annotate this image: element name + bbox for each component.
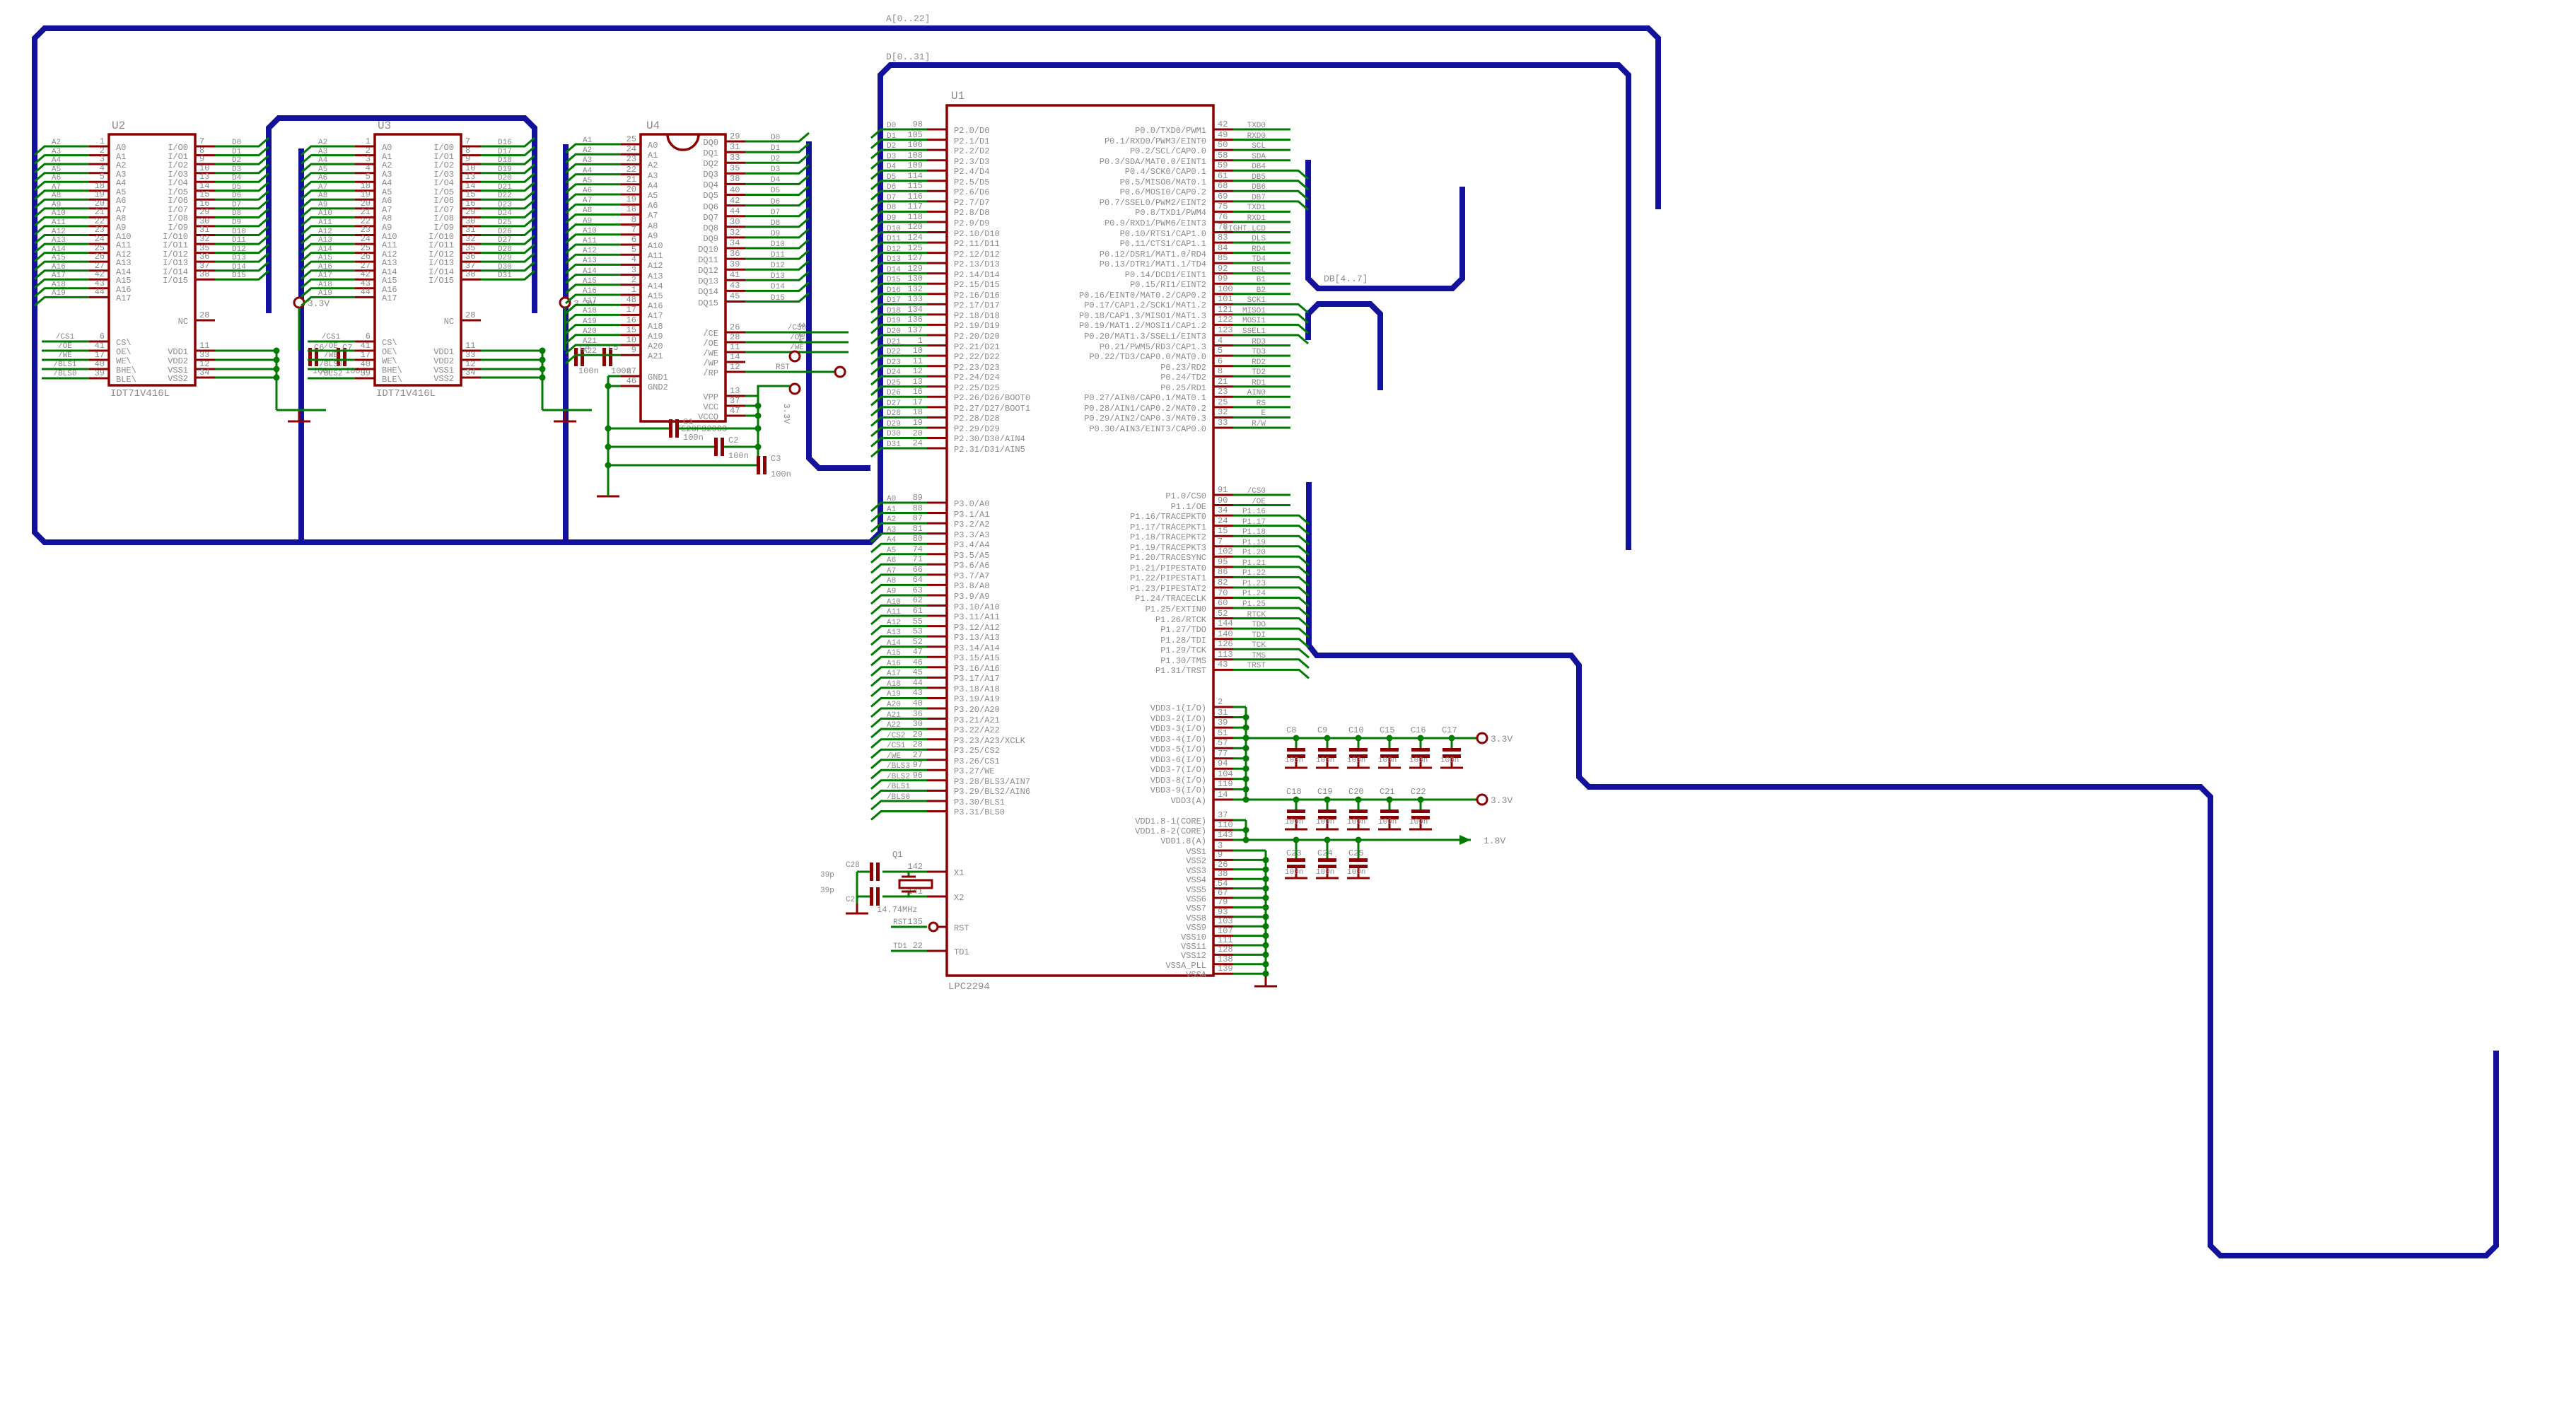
svg-text:5: 5 (1218, 346, 1223, 356)
svg-text:A15: A15 (887, 649, 901, 658)
svg-text:86: 86 (1218, 567, 1228, 577)
svg-text:D21: D21 (498, 183, 512, 192)
svg-text:D15: D15 (887, 276, 901, 284)
svg-text:RST: RST (954, 923, 969, 933)
svg-text:WE\: WE\ (382, 356, 397, 366)
svg-text:A10: A10 (318, 209, 332, 218)
svg-text:P0.11/CTS1/CAP1.1: P0.11/CTS1/CAP1.1 (1120, 239, 1206, 249)
svg-text:A9: A9 (52, 201, 61, 209)
svg-text:TMS: TMS (1252, 652, 1266, 660)
svg-text:A13: A13 (887, 629, 901, 637)
U4 power wires and caps C1 C2 C3 (597, 322, 845, 496)
svg-text:A9: A9 (648, 231, 658, 241)
svg-text:41: 41 (730, 270, 740, 280)
svg-text:C3: C3 (771, 454, 781, 464)
svg-text:D11: D11 (887, 235, 901, 243)
svg-text:D9: D9 (232, 218, 241, 227)
svg-text:28: 28 (913, 740, 923, 749)
svg-text:VSSA: VSSA (1186, 970, 1207, 980)
svg-text:A14: A14 (648, 281, 663, 291)
svg-text:54: 54 (1218, 879, 1228, 889)
svg-text:43: 43 (913, 688, 923, 698)
svg-text:24: 24 (361, 234, 371, 244)
svg-text:A5: A5 (887, 547, 896, 555)
svg-text:71: 71 (913, 554, 923, 564)
svg-text:D14: D14 (771, 283, 785, 291)
svg-text:P3.31/BLS0: P3.31/BLS0 (954, 807, 1005, 817)
svg-text:A6: A6 (583, 187, 592, 195)
svg-text:120: 120 (907, 222, 923, 232)
svg-text:A18: A18 (318, 281, 332, 289)
svg-text:90: 90 (1218, 496, 1228, 505)
svg-text:OE\: OE\ (382, 347, 397, 357)
svg-text:100n: 100n (1316, 756, 1334, 765)
svg-text:26: 26 (1218, 860, 1228, 870)
svg-text:74: 74 (913, 544, 923, 554)
svg-text:34: 34 (1218, 505, 1228, 515)
bus D[0..31] label (886, 52, 930, 62)
svg-text:A5: A5 (648, 191, 658, 201)
svg-text:A11: A11 (116, 240, 132, 250)
svg-text:22: 22 (913, 941, 923, 951)
svg-text:P3.26/CS1: P3.26/CS1 (954, 756, 1000, 766)
svg-text:D13: D13 (771, 272, 785, 281)
svg-text:D[0..31]: D[0..31] (886, 52, 930, 62)
svg-text:61: 61 (1218, 171, 1228, 181)
svg-text:/CE: /CE (703, 329, 718, 339)
svg-text:A4: A4 (887, 536, 897, 544)
svg-text:39: 39 (95, 368, 105, 378)
svg-text:1: 1 (631, 285, 636, 295)
svg-text:TD1: TD1 (893, 942, 907, 951)
svg-text:134: 134 (907, 305, 923, 315)
svg-text:40: 40 (913, 699, 923, 708)
svg-text:CS\: CS\ (382, 338, 397, 348)
svg-text:D9: D9 (771, 230, 780, 238)
svg-text:BHE\: BHE\ (382, 366, 402, 375)
U1 VDD1.8 pins (1135, 810, 1505, 846)
svg-text:A10: A10 (648, 241, 663, 251)
svg-text:I/O8: I/O8 (433, 214, 454, 223)
svg-text:P3.16/A16: P3.16/A16 (954, 664, 1000, 674)
svg-text:P2.15/D15: P2.15/D15 (954, 280, 1000, 290)
svg-text:43: 43 (1218, 660, 1228, 670)
svg-text:A15: A15 (318, 254, 332, 262)
svg-text:100n: 100n (1378, 756, 1397, 765)
svg-text:13: 13 (465, 172, 475, 182)
svg-text:D12: D12 (887, 245, 901, 254)
svg-text:34: 34 (199, 368, 209, 378)
svg-text:135: 135 (907, 917, 923, 927)
svg-text:D2: D2 (771, 155, 780, 163)
svg-text:D7: D7 (771, 209, 780, 217)
svg-text:125: 125 (907, 243, 923, 253)
svg-text:VDD1.8(A): VDD1.8(A) (1160, 836, 1206, 846)
svg-text:21: 21 (1218, 377, 1228, 387)
svg-text:DQ8: DQ8 (703, 223, 718, 233)
svg-text:P2.7/D7: P2.7/D7 (954, 198, 989, 208)
svg-text:P0.1/RXD0/PWM3/EINT0: P0.1/RXD0/PWM3/EINT0 (1105, 136, 1206, 146)
svg-text:/OE: /OE (58, 342, 72, 351)
svg-text:P0.3/SDA/MAT0.0/EINT1: P0.3/SDA/MAT0.0/EINT1 (1100, 157, 1206, 167)
svg-text:/OE: /OE (1252, 498, 1266, 506)
svg-text:27: 27 (913, 750, 923, 760)
svg-text:118: 118 (907, 212, 923, 222)
svg-text:P3.23/A23/XCLK: P3.23/A23/XCLK (954, 736, 1026, 746)
svg-text:P1.18: P1.18 (1242, 528, 1266, 537)
svg-text:9: 9 (199, 154, 204, 164)
svg-text:A16: A16 (583, 287, 597, 296)
svg-text:/RP: /RP (703, 368, 718, 378)
svg-text:A13: A13 (583, 257, 597, 265)
bus A[0..22] label (886, 13, 930, 24)
svg-text:P2.6/D6: P2.6/D6 (954, 187, 989, 197)
svg-text:P2.12/D12: P2.12/D12 (954, 250, 1000, 259)
svg-text:100n: 100n (1409, 818, 1428, 826)
svg-text:83: 83 (1218, 233, 1228, 242)
svg-text:I/O2: I/O2 (168, 160, 188, 170)
svg-text:100n: 100n (1316, 868, 1334, 877)
svg-text:13: 13 (730, 386, 740, 396)
svg-text:P1.23/PIPESTAT2: P1.23/PIPESTAT2 (1130, 584, 1206, 594)
svg-text:GND1: GND1 (648, 373, 668, 382)
svg-text:/BLS1: /BLS1 (53, 361, 76, 369)
svg-text:SCK1: SCK1 (1247, 296, 1266, 305)
svg-text:I/O8: I/O8 (168, 214, 188, 223)
svg-text:A2: A2 (583, 146, 592, 155)
svg-text:A12: A12 (52, 228, 66, 236)
svg-text:1.8V: 1.8V (1484, 836, 1505, 846)
svg-text:70: 70 (1218, 588, 1228, 598)
U1 VDD3 pins and 3.3V (1150, 697, 1513, 806)
svg-text:A11: A11 (318, 218, 332, 227)
svg-text:36: 36 (730, 249, 740, 259)
svg-text:RD3: RD3 (1252, 338, 1266, 346)
svg-text:/BLS2: /BLS2 (887, 773, 910, 781)
svg-text:A15: A15 (583, 277, 597, 286)
svg-text:121: 121 (1218, 305, 1233, 315)
svg-text:C8: C8 (1286, 725, 1296, 735)
MCU U1 LPC2294 (947, 90, 1213, 993)
svg-text:59: 59 (1218, 160, 1228, 170)
svg-text:P2.13/D13: P2.13/D13 (954, 259, 1000, 269)
svg-text:42: 42 (730, 196, 740, 206)
svg-text:32: 32 (730, 228, 740, 238)
svg-text:P0.8/TXD1/PWM4: P0.8/TXD1/PWM4 (1135, 208, 1206, 218)
U1 VSS pins (1165, 841, 1277, 986)
svg-text:5: 5 (631, 245, 636, 255)
svg-text:D4: D4 (232, 174, 242, 182)
svg-text:28: 28 (465, 310, 475, 320)
svg-text:P2.20/D20: P2.20/D20 (954, 332, 1000, 341)
svg-text:/CS2: /CS2 (887, 732, 905, 740)
svg-text:D19: D19 (498, 165, 512, 174)
svg-text:88: 88 (913, 503, 923, 513)
svg-text:16: 16 (626, 315, 636, 325)
svg-text:U1: U1 (951, 90, 964, 103)
svg-text:28: 28 (730, 332, 740, 342)
svg-text:VDD3-1(I/O): VDD3-1(I/O) (1150, 703, 1206, 713)
svg-text:P0.18/CAP1.3/MISO1/MAT1.3: P0.18/CAP1.3/MISO1/MAT1.3 (1079, 311, 1206, 321)
svg-text:P3.10/A10: P3.10/A10 (954, 602, 1000, 612)
svg-text:15: 15 (199, 189, 209, 199)
svg-text:5: 5 (100, 172, 105, 182)
svg-text:75: 75 (1218, 201, 1228, 211)
svg-text:38: 38 (730, 174, 740, 184)
svg-text:A18: A18 (648, 322, 663, 332)
svg-text:VSS11: VSS11 (1181, 942, 1206, 952)
svg-text:D31: D31 (887, 440, 901, 449)
svg-text:SDA: SDA (1252, 153, 1266, 161)
svg-text:84: 84 (1218, 243, 1228, 253)
svg-text:29: 29 (199, 207, 209, 217)
svg-text:D6: D6 (232, 192, 241, 200)
svg-text:D29: D29 (887, 420, 901, 428)
svg-text:81: 81 (913, 524, 923, 534)
svg-text:7: 7 (631, 225, 636, 235)
svg-text:1: 1 (366, 136, 371, 146)
svg-text:108: 108 (907, 151, 923, 160)
svg-text:3.3V: 3.3V (1491, 795, 1513, 806)
svg-text:D27: D27 (498, 236, 512, 245)
svg-text:DQ2: DQ2 (703, 159, 718, 169)
svg-text:17: 17 (95, 350, 105, 360)
svg-text:BSL: BSL (1252, 266, 1266, 274)
svg-text:4: 4 (631, 255, 636, 264)
svg-text:D30: D30 (498, 263, 512, 271)
svg-text:6: 6 (100, 332, 105, 341)
svg-text:DQ6: DQ6 (703, 202, 718, 212)
svg-text:10: 10 (626, 335, 636, 345)
svg-text:VSS5: VSS5 (1186, 885, 1206, 895)
svg-text:I/O9: I/O9 (168, 223, 188, 233)
svg-text:52: 52 (913, 637, 923, 647)
svg-text:VSS2: VSS2 (433, 374, 454, 384)
svg-text:67: 67 (1218, 888, 1228, 898)
svg-text:C1: C1 (683, 417, 693, 427)
svg-text:16: 16 (913, 387, 923, 397)
svg-text:DQ0: DQ0 (703, 138, 718, 148)
svg-text:/BLS3: /BLS3 (319, 361, 342, 369)
svg-text:115: 115 (907, 181, 923, 191)
svg-text:109: 109 (907, 160, 923, 170)
svg-text:44: 44 (913, 678, 923, 688)
svg-text:P2.3/D3: P2.3/D3 (954, 157, 989, 167)
svg-text:113: 113 (1218, 650, 1233, 660)
svg-text:A8: A8 (52, 192, 61, 200)
svg-text:49: 49 (1218, 130, 1228, 140)
svg-text:91: 91 (1218, 485, 1228, 495)
svg-text:1: 1 (100, 136, 105, 146)
svg-text:D4: D4 (887, 163, 897, 171)
svg-text:26: 26 (95, 252, 105, 262)
svg-text:DQ9: DQ9 (703, 234, 718, 244)
svg-text:DQ15: DQ15 (698, 298, 718, 308)
svg-text:P0.21/PWM5/RD3/CAP1.3: P0.21/PWM5/RD3/CAP1.3 (1100, 342, 1206, 352)
svg-text:19: 19 (626, 194, 636, 204)
svg-text:92: 92 (1218, 264, 1228, 274)
svg-text:6: 6 (1218, 356, 1223, 366)
svg-text:CS\: CS\ (116, 338, 132, 348)
svg-text:144: 144 (1218, 619, 1233, 629)
svg-text:P1.24/TRACECLK: P1.24/TRACECLK (1135, 594, 1207, 604)
svg-text:P3.28/BLS3/AIN7: P3.28/BLS3/AIN7 (954, 777, 1030, 787)
svg-text:A8: A8 (583, 206, 592, 215)
svg-text:D3: D3 (887, 153, 896, 161)
svg-text:13: 13 (199, 172, 209, 182)
svg-text:A15: A15 (382, 276, 397, 286)
svg-text:39: 39 (1218, 718, 1228, 727)
svg-text:BLE\: BLE\ (116, 375, 136, 385)
svg-text:DB4: DB4 (1252, 163, 1266, 171)
svg-text:24: 24 (95, 234, 105, 244)
svg-text:100: 100 (1218, 284, 1233, 294)
svg-text:P0.12/DSR1/MAT1.0/RD4: P0.12/DSR1/MAT1.0/RD4 (1100, 250, 1206, 259)
svg-text:61: 61 (913, 606, 923, 616)
svg-text:40: 40 (95, 359, 105, 369)
svg-text:P3.0/A0: P3.0/A0 (954, 499, 989, 509)
svg-text:A13: A13 (648, 271, 663, 281)
svg-text:C18: C18 (1286, 787, 1302, 797)
svg-text:1: 1 (918, 336, 923, 346)
svg-text:P1.30/TMS: P1.30/TMS (1160, 656, 1206, 666)
svg-text:100n: 100n (1285, 818, 1303, 826)
svg-text:I/O15: I/O15 (429, 276, 454, 286)
svg-text:VDD3-6(I/O): VDD3-6(I/O) (1150, 755, 1206, 765)
svg-text:A6: A6 (318, 174, 327, 182)
svg-text:P1.26/RTCK: P1.26/RTCK (1155, 615, 1207, 625)
svg-text:A16: A16 (52, 263, 66, 271)
svg-text:A11: A11 (583, 237, 597, 245)
svg-text:100n: 100n (771, 469, 791, 479)
svg-text:P3.20/A20: P3.20/A20 (954, 705, 1000, 715)
svg-text:P3.1/A1: P3.1/A1 (954, 510, 989, 520)
svg-text:3.3V: 3.3V (796, 322, 806, 344)
svg-text:D17: D17 (498, 148, 512, 156)
svg-text:A22: A22 (583, 347, 597, 356)
svg-text:28: 28 (199, 310, 209, 320)
svg-text:/BLS1: /BLS1 (887, 783, 910, 791)
svg-text:C9: C9 (1317, 725, 1327, 735)
svg-text:46: 46 (626, 376, 636, 386)
svg-text:100n: 100n (1285, 756, 1303, 765)
svg-text:C28: C28 (846, 861, 860, 870)
svg-text:/BLS2: /BLS2 (319, 370, 342, 378)
svg-text:TD2: TD2 (1252, 368, 1266, 377)
svg-text:22: 22 (626, 165, 636, 175)
svg-text:DQ14: DQ14 (698, 287, 718, 297)
svg-text:11: 11 (913, 356, 923, 366)
svg-text:142: 142 (907, 862, 923, 872)
wire bus SPI stub (1308, 304, 1380, 390)
svg-text:100n: 100n (683, 433, 704, 443)
svg-text:VSS1: VSS1 (1186, 847, 1206, 857)
svg-text:D23: D23 (887, 358, 901, 367)
svg-text:D18: D18 (887, 307, 901, 315)
svg-text:D29: D29 (498, 254, 512, 262)
svg-text:93: 93 (1218, 907, 1228, 917)
svg-text:/CS1: /CS1 (887, 742, 906, 750)
svg-text:20: 20 (913, 428, 923, 438)
svg-text:62: 62 (913, 595, 923, 605)
svg-text:P0.27/AIN0/CAP0.1/MAT0.1: P0.27/AIN0/CAP0.1/MAT0.1 (1084, 393, 1206, 403)
svg-text:P0.4/SCK0/CAP0.1: P0.4/SCK0/CAP0.1 (1125, 167, 1206, 177)
svg-text:P1.0/CS0: P1.0/CS0 (1165, 491, 1206, 501)
svg-text:12: 12 (730, 362, 740, 372)
svg-text:/CS1: /CS1 (56, 333, 75, 341)
svg-text:P3.2/A2: P3.2/A2 (954, 520, 989, 530)
svg-text:64: 64 (913, 575, 923, 585)
svg-text:126: 126 (1218, 639, 1233, 649)
svg-text:51: 51 (1218, 728, 1228, 738)
svg-text:132: 132 (907, 284, 923, 294)
svg-text:35: 35 (730, 163, 740, 173)
svg-text:RXD1: RXD1 (1247, 214, 1266, 223)
svg-text:TRST: TRST (1247, 662, 1266, 670)
svg-text:D8: D8 (771, 219, 780, 228)
svg-text:D3: D3 (232, 165, 241, 174)
svg-text:45: 45 (730, 291, 740, 301)
svg-text:A8: A8 (382, 214, 392, 223)
svg-text:3.3V: 3.3V (781, 404, 791, 425)
wire bus U4 data stub (809, 141, 870, 468)
svg-text:/OE: /OE (703, 339, 718, 349)
svg-text:A17: A17 (887, 670, 901, 678)
svg-text:DQ7: DQ7 (703, 213, 718, 223)
svg-text:D1: D1 (771, 144, 781, 153)
svg-text:A9: A9 (887, 588, 896, 596)
svg-text:P3.27/WE: P3.27/WE (954, 766, 995, 776)
svg-text:A8: A8 (648, 221, 658, 231)
svg-text:D5: D5 (771, 187, 780, 195)
svg-text:A6: A6 (887, 556, 896, 565)
svg-text:GND2: GND2 (648, 382, 668, 392)
svg-text:VDD3-8(I/O): VDD3-8(I/O) (1150, 776, 1206, 785)
svg-text:A1: A1 (887, 505, 897, 514)
svg-text:RST: RST (776, 363, 790, 372)
svg-text:C2: C2 (728, 436, 738, 445)
svg-text:P3.8/A8: P3.8/A8 (954, 581, 989, 591)
svg-text:34: 34 (465, 368, 475, 378)
svg-text:C25: C25 (1348, 848, 1364, 858)
svg-text:A17: A17 (318, 271, 332, 280)
svg-text:18: 18 (913, 407, 923, 417)
svg-text:P0.25/RD1: P0.25/RD1 (1160, 383, 1206, 393)
svg-text:D18: D18 (498, 156, 512, 165)
svg-text:29: 29 (730, 132, 740, 141)
svg-text:63: 63 (913, 585, 923, 595)
svg-text:P2.10/D10: P2.10/D10 (954, 229, 1000, 239)
svg-text:P1.16/TRACEPKT0: P1.16/TRACEPKT0 (1130, 512, 1206, 522)
svg-text:D5: D5 (887, 173, 896, 182)
svg-text:41: 41 (361, 341, 371, 351)
svg-text:D14: D14 (232, 263, 246, 271)
svg-text:44: 44 (730, 206, 740, 216)
svg-text:A2: A2 (116, 160, 126, 170)
svg-text:VDD1: VDD1 (168, 347, 188, 357)
svg-text:I/O11: I/O11 (429, 240, 454, 250)
svg-text:A16: A16 (887, 660, 901, 668)
svg-text:143: 143 (1218, 830, 1233, 840)
svg-text:DB6: DB6 (1252, 183, 1266, 192)
svg-text:A5: A5 (52, 165, 61, 174)
svg-text:A7: A7 (583, 197, 592, 205)
svg-text:D6: D6 (771, 198, 780, 206)
svg-text:A6: A6 (382, 196, 392, 206)
svg-text:P0.30/AIN3/EINT3/CAP0.0: P0.30/AIN3/EINT3/CAP0.0 (1089, 424, 1206, 434)
svg-text:VDD1.8-2(CORE): VDD1.8-2(CORE) (1135, 826, 1206, 836)
svg-text:33: 33 (199, 350, 209, 360)
